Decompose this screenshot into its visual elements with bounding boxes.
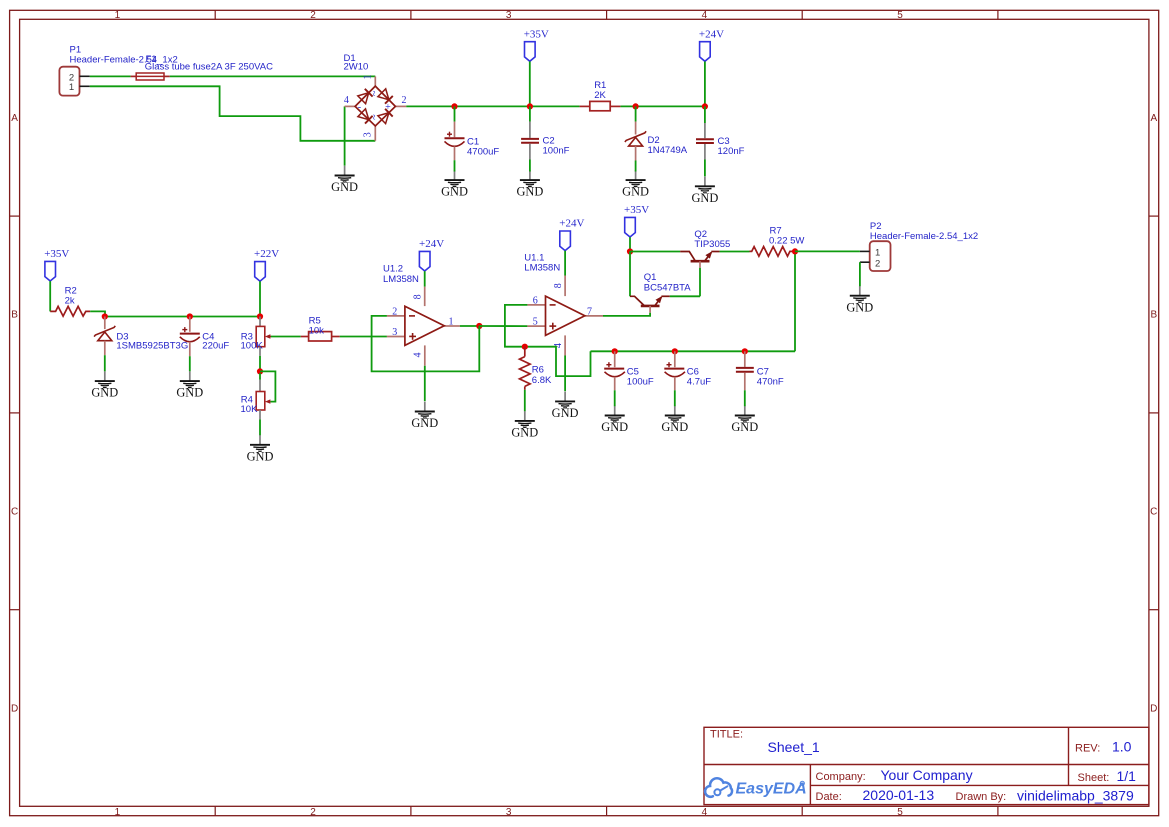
svg-text:A: A — [11, 113, 18, 124]
wire (Q2 base) — [699, 268, 701, 297]
svg-text:~: ~ — [369, 114, 380, 120]
wire — [629, 252, 631, 297]
wire — [424, 271, 426, 286]
capacitor C4 — [180, 317, 230, 372]
svg-text:GND: GND — [731, 420, 758, 434]
power flag +24V (over U1.1) — [559, 218, 584, 251]
wire (main +35V rail) — [406, 105, 579, 107]
connector P2 — [860, 221, 978, 271]
resistor R6 — [520, 347, 553, 390]
svg-text:4.7uF: 4.7uF — [687, 376, 711, 387]
svg-text:2: 2 — [875, 258, 880, 269]
svg-text:Header-Female-2.54_1x2: Header-Female-2.54_1x2 — [870, 231, 978, 242]
wire (filter rail up to R7 node) — [794, 251, 796, 351]
wire — [720, 251, 750, 253]
svg-text:GND: GND — [441, 185, 468, 199]
svg-text:0.22 5W: 0.22 5W — [769, 236, 804, 247]
svg-text:Sheet_1: Sheet_1 — [768, 739, 820, 755]
wire (R4 wiper tie) — [260, 371, 275, 401]
wire (Q1 emitter to Q2 base) — [670, 295, 700, 297]
ground (R6) — [511, 411, 538, 439]
svg-text:1/1: 1/1 — [1117, 768, 1137, 784]
svg-text:5: 5 — [533, 317, 538, 328]
svg-text:1: 1 — [362, 75, 373, 80]
node C1 junction — [451, 103, 457, 109]
svg-text:vinidelimabp_3879: vinidelimabp_3879 — [1017, 788, 1134, 804]
svg-text:10k: 10k — [309, 325, 325, 336]
svg-text:100uF: 100uF — [627, 376, 654, 387]
svg-text:7: 7 — [587, 306, 592, 317]
svg-text:+24V: +24V — [419, 238, 444, 250]
wire — [524, 390, 526, 411]
svg-text:B: B — [11, 310, 18, 321]
title block frame — [704, 727, 1149, 804]
svg-text:4: 4 — [702, 10, 708, 21]
svg-text:2: 2 — [310, 10, 316, 21]
wire — [259, 419, 261, 435]
ground (C5) — [601, 406, 628, 434]
node D3 junction — [102, 313, 108, 319]
svg-text:3: 3 — [392, 327, 397, 338]
zener diode D2 — [625, 106, 688, 171]
svg-text:Q1: Q1 — [644, 272, 657, 283]
svg-text:6.8K: 6.8K — [532, 375, 552, 386]
svg-text:+35V: +35V — [624, 204, 649, 216]
svg-text:2020-01-13: 2020-01-13 — [863, 787, 935, 803]
node D2 junction — [633, 103, 639, 109]
svg-text:BC547BTA: BC547BTA — [644, 283, 691, 294]
ground (U1.1 pin 4) — [552, 392, 579, 420]
svg-text:D: D — [1150, 703, 1157, 714]
svg-text:120nF: 120nF — [718, 146, 745, 157]
svg-text:4: 4 — [344, 95, 349, 106]
svg-text:LM358N: LM358N — [524, 262, 560, 273]
wire — [344, 106, 346, 165]
svg-text:Glass tube fuse2A 3F 250VAC: Glass tube fuse2A 3F 250VAC — [145, 62, 273, 73]
svg-text:Drawn By:: Drawn By: — [956, 791, 1007, 803]
wire — [170, 75, 375, 77]
svg-text:+35V: +35V — [44, 248, 69, 260]
svg-text:C: C — [11, 507, 18, 518]
svg-text:6: 6 — [533, 295, 538, 306]
svg-text:1SMB5925BT3G: 1SMB5925BT3G — [116, 341, 188, 352]
svg-text:4: 4 — [702, 807, 708, 818]
power flag +24V (top, over C3 node) — [699, 28, 724, 61]
svg-text:GND: GND — [601, 420, 628, 434]
node C2 junction — [527, 103, 533, 109]
wire — [424, 366, 426, 401]
svg-text:TITLE:: TITLE: — [710, 729, 743, 741]
svg-text:-: - — [358, 102, 361, 113]
svg-text:GND: GND — [331, 180, 358, 194]
svg-text:10K: 10K — [241, 404, 259, 415]
svg-text:470nF: 470nF — [757, 376, 784, 387]
node R3 junction — [257, 313, 263, 319]
svg-text:GND: GND — [552, 406, 579, 420]
svg-text:+24V: +24V — [559, 218, 584, 230]
wire — [259, 281, 261, 316]
wire — [620, 105, 705, 107]
ground (C3) — [691, 177, 718, 205]
wire — [90, 86, 376, 141]
svg-text:D: D — [11, 703, 18, 714]
svg-text:~: ~ — [369, 90, 380, 96]
op-amp U1.1 — [524, 252, 603, 355]
capacitor C3 — [696, 106, 745, 176]
wire — [629, 237, 631, 251]
svg-text:220uF: 220uF — [202, 341, 229, 352]
svg-text:LM358N: LM358N — [383, 274, 419, 285]
ground (D2) — [622, 170, 649, 198]
svg-text:TIP3055: TIP3055 — [694, 239, 730, 250]
wire (R3 wiper to R5) — [271, 336, 301, 338]
node U1.2 output junction — [476, 323, 482, 329]
capacitor C1 — [445, 106, 500, 171]
svg-text:3: 3 — [362, 132, 373, 137]
svg-text:100K: 100K — [241, 341, 264, 352]
potentiometer R3 — [241, 317, 272, 356]
wire (U1.2 feedback loop) — [372, 316, 480, 372]
power flag +22V (over R3) — [254, 248, 279, 281]
svg-text:1: 1 — [449, 317, 454, 328]
svg-text:Company:: Company: — [816, 771, 866, 783]
capacitor C6 — [664, 351, 711, 406]
svg-text:A: A — [1150, 113, 1157, 124]
ground (P2 pin 2) — [846, 286, 873, 314]
wire — [795, 250, 860, 252]
ground (R4) — [247, 435, 274, 463]
ground (U1.2 pin 4) — [411, 402, 438, 430]
wire (Q1 base to U1.1 output) — [603, 313, 650, 316]
wire — [90, 75, 131, 77]
op-amp U1.2 — [383, 264, 460, 366]
svg-text:REV:: REV: — [1075, 743, 1100, 755]
svg-text:3: 3 — [506, 10, 512, 21]
power flag +35V (top, over C2 node) — [524, 28, 549, 61]
svg-text:1.0: 1.0 — [1112, 739, 1132, 755]
svg-text:GND: GND — [691, 191, 718, 205]
wire (row B rail) — [105, 316, 260, 318]
wire — [340, 336, 387, 338]
svg-text:3: 3 — [506, 807, 512, 818]
wire — [259, 356, 261, 370]
wire — [564, 251, 566, 276]
ground (C7) — [731, 406, 758, 434]
ground (bridge minus) — [331, 166, 358, 194]
svg-text:4: 4 — [412, 353, 423, 358]
node C6 junction — [672, 348, 678, 354]
svg-text:2K: 2K — [594, 90, 606, 101]
node +35V junction at Q1/Q2 — [627, 248, 633, 254]
wire — [90, 311, 105, 316]
svg-text:B: B — [1150, 310, 1157, 321]
node R7 output junction — [792, 248, 798, 254]
svg-text:EasyEDA: EasyEDA — [736, 781, 807, 798]
ground (C4) — [176, 371, 203, 399]
node R4 junction — [257, 368, 263, 374]
svg-text:Your Company: Your Company — [881, 767, 973, 783]
svg-text:+22V: +22V — [254, 248, 279, 260]
svg-text:GND: GND — [176, 386, 203, 400]
zener diode D3 — [94, 317, 188, 372]
transistor Q1 — [630, 272, 691, 313]
svg-text:GND: GND — [516, 185, 543, 199]
svg-text:100nF: 100nF — [543, 146, 570, 157]
EasyEDA logo cloud — [705, 778, 804, 797]
resistor R7 — [750, 226, 805, 257]
svg-text:GND: GND — [411, 416, 438, 430]
svg-text:1: 1 — [69, 82, 74, 93]
svg-text:1: 1 — [115, 10, 121, 21]
bridge rectifier D1 — [344, 53, 407, 141]
wire (U1.1 pin 6 feedback loop) — [505, 305, 591, 376]
wire (P2 pin 2 to ground) — [859, 262, 861, 286]
capacitor C7 — [736, 351, 784, 406]
node C7 junction — [742, 348, 748, 354]
svg-text:+24V: +24V — [699, 28, 724, 40]
svg-text:Sheet:: Sheet: — [1078, 772, 1110, 784]
wire — [704, 62, 706, 107]
svg-text:C: C — [1150, 507, 1157, 518]
node C5 junction — [612, 348, 618, 354]
potentiometer R4 — [241, 373, 271, 419]
svg-text:5: 5 — [897, 10, 903, 21]
capacitor C5 — [604, 351, 654, 406]
svg-text:GND: GND — [247, 449, 274, 463]
svg-text:GND: GND — [91, 386, 118, 400]
svg-text:Date:: Date: — [816, 791, 842, 803]
ground (C1) — [441, 170, 468, 198]
svg-text:+: + — [385, 102, 391, 113]
ground (D3) — [91, 371, 118, 399]
connector P1 — [59, 44, 177, 95]
svg-text:GND: GND — [511, 426, 538, 440]
svg-text:+35V: +35V — [524, 28, 549, 40]
resistor R5 — [301, 316, 340, 341]
node C4 junction — [187, 313, 193, 319]
svg-text:8: 8 — [553, 283, 564, 288]
svg-text:2k: 2k — [65, 295, 75, 306]
svg-text:1N4749A: 1N4749A — [648, 145, 688, 156]
wire — [630, 251, 680, 253]
svg-text:GND: GND — [846, 300, 873, 314]
svg-text:8: 8 — [412, 294, 423, 299]
wire — [564, 356, 566, 392]
capacitor C2 — [521, 106, 570, 171]
svg-text:1: 1 — [115, 807, 121, 818]
svg-text:2: 2 — [402, 95, 407, 106]
power flag +35V (over Q2) — [624, 204, 649, 237]
ground (C6) — [661, 406, 688, 434]
resistor R2 — [50, 285, 90, 316]
svg-text:2W10: 2W10 — [344, 62, 369, 73]
power flag +35V (left, feeds R2) — [44, 248, 69, 281]
node C3 junction — [702, 103, 708, 109]
fuse F1 — [131, 54, 273, 80]
svg-text:4700uF: 4700uF — [467, 146, 499, 157]
svg-text:GND: GND — [622, 185, 649, 199]
transistor Q2 — [680, 229, 730, 268]
svg-text:GND: GND — [661, 420, 688, 434]
ground (C2) — [516, 170, 543, 198]
power flag +24V (over U1.2) — [419, 238, 444, 271]
wire — [529, 62, 531, 107]
wire (filter rail) — [591, 350, 796, 352]
svg-text:2: 2 — [310, 807, 316, 818]
resistor R1 — [580, 80, 621, 111]
node R6 junction — [522, 344, 528, 350]
wire — [49, 281, 51, 311]
svg-text:5: 5 — [897, 807, 903, 818]
wire (U1.2 output) — [460, 325, 479, 327]
svg-text:1: 1 — [875, 248, 880, 259]
svg-text:2: 2 — [392, 307, 397, 318]
wire (to U1.1 pin 5) — [479, 325, 527, 327]
